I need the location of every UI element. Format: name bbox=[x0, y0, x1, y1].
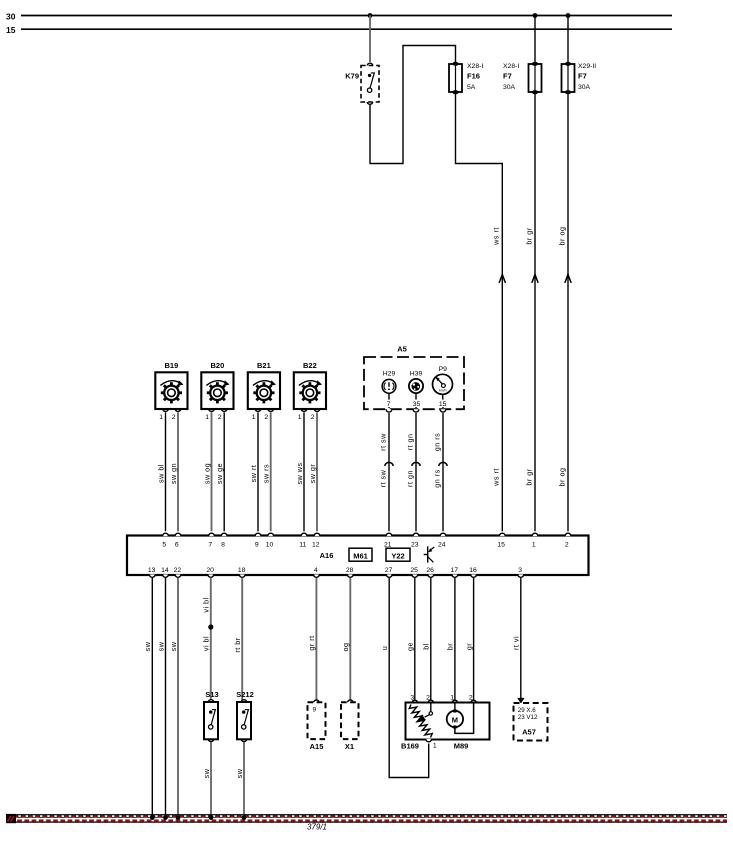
terminal A16 top pin 2 bbox=[565, 533, 571, 536]
svg-text:vi bl: vi bl bbox=[202, 636, 211, 651]
svg-text:F7: F7 bbox=[503, 72, 512, 81]
svg-text:23 V12: 23 V12 bbox=[518, 714, 538, 721]
svg-text:F7: F7 bbox=[578, 72, 587, 81]
svg-text:H39: H39 bbox=[410, 371, 423, 378]
ground dot S13 wire bbox=[209, 815, 214, 820]
svg-text:18: 18 bbox=[238, 567, 246, 574]
connector A57 bbox=[514, 698, 548, 741]
svg-text:br gr: br gr bbox=[524, 227, 533, 244]
wire A16 pin4 to A15, gr rt bbox=[315, 578, 317, 700]
svg-text:F16: F16 bbox=[467, 72, 480, 81]
svg-text:br og: br og bbox=[557, 468, 566, 487]
wire B20 pin1 to A16, sw og bbox=[211, 413, 213, 532]
wire B19 pin1 to A16, sw bl bbox=[165, 413, 167, 532]
svg-text:5: 5 bbox=[162, 541, 166, 548]
svg-text:X29-II: X29-II bbox=[578, 63, 596, 70]
terminal A16 bottom pin 25 bbox=[412, 574, 418, 577]
pin label A5 7 bbox=[385, 400, 392, 408]
svg-text:30A: 30A bbox=[578, 84, 591, 91]
wire net30 to K79 bbox=[369, 16, 371, 63]
wire S13 to ground, sw bbox=[210, 742, 212, 817]
wire A16 pin25 to B169 pin3, ge bbox=[414, 578, 416, 701]
svg-text:vi bl: vi bl bbox=[202, 597, 211, 612]
svg-text:br og: br og bbox=[557, 227, 566, 246]
switch S13 bbox=[204, 690, 219, 741]
svg-text:35: 35 bbox=[413, 401, 421, 408]
svg-text:15: 15 bbox=[439, 401, 447, 408]
pin label A5 35 bbox=[412, 400, 422, 408]
svg-text:sw ge: sw ge bbox=[215, 463, 224, 484]
svg-text:M89: M89 bbox=[454, 741, 469, 750]
terminal A16 top pin 5 bbox=[163, 533, 169, 536]
arrow on wire br og bbox=[565, 274, 571, 283]
instrument assembly A5 bbox=[364, 344, 464, 409]
connector arc on rt sw wire bbox=[385, 462, 394, 465]
svg-text:sw rs: sw rs bbox=[262, 464, 271, 483]
boxed label M61 bbox=[349, 548, 372, 561]
svg-text:M61: M61 bbox=[353, 552, 368, 561]
svg-text:7: 7 bbox=[208, 541, 212, 548]
speed sensor B22 bbox=[294, 361, 326, 421]
svg-text:A5: A5 bbox=[397, 344, 407, 353]
svg-text:S13: S13 bbox=[205, 690, 218, 699]
svg-text:23: 23 bbox=[411, 541, 419, 548]
svg-text:rt gn: rt gn bbox=[406, 434, 415, 451]
svg-text:30A: 30A bbox=[503, 84, 516, 91]
svg-text:Y22: Y22 bbox=[391, 552, 404, 561]
svg-text:2: 2 bbox=[469, 695, 473, 702]
terminal A16 top pin 8 bbox=[221, 533, 227, 536]
terminal A16 bottom pin 4 bbox=[314, 574, 320, 577]
svg-text:10: 10 bbox=[266, 541, 274, 548]
wire net30 to F7-II bbox=[567, 16, 569, 63]
wire net 15 bus line bbox=[21, 28, 672, 30]
svg-text:A15: A15 bbox=[310, 742, 324, 751]
wire A16 pin20 to S13, vi bl bbox=[210, 578, 212, 700]
svg-text:bl: bl bbox=[422, 643, 431, 650]
svg-text:sw: sw bbox=[235, 768, 244, 778]
wire B21 pin2 to A16, sw rs bbox=[270, 413, 272, 532]
wire H39 internal bbox=[415, 393, 417, 408]
terminal A16 bottom pin 16 bbox=[471, 574, 477, 577]
svg-text:B21: B21 bbox=[257, 361, 271, 370]
svg-text:20: 20 bbox=[206, 567, 214, 574]
wire B21 pin1 to A16, sw rt bbox=[257, 413, 259, 532]
pin label A5 15 bbox=[438, 400, 448, 408]
svg-text:6: 6 bbox=[175, 541, 179, 548]
wire S212 to ground, sw bbox=[243, 742, 245, 817]
boxed label Y22 bbox=[386, 548, 410, 561]
svg-text:24: 24 bbox=[438, 541, 446, 548]
terminal A16 top pin 10 bbox=[268, 533, 274, 536]
svg-text:rt sw: rt sw bbox=[379, 469, 388, 487]
arrow on wire br gr bbox=[532, 274, 538, 283]
svg-text:ws rt: ws rt bbox=[492, 227, 501, 246]
svg-text:A16: A16 bbox=[320, 551, 334, 560]
actuator unit B169 M89 box bbox=[406, 695, 490, 740]
wire A16 pin13 to ground, sw bbox=[151, 578, 153, 817]
speed sensor B20 bbox=[201, 361, 233, 421]
junction dot F7-II on net 30 bbox=[566, 13, 571, 18]
terminal A16 bottom pin 26 bbox=[428, 574, 434, 577]
svg-text:sw ws: sw ws bbox=[295, 462, 304, 484]
ECU A16 box bbox=[127, 536, 589, 576]
svg-text:1: 1 bbox=[298, 414, 302, 421]
wire A16 pin27 to B169 pin1 routed, u bbox=[389, 578, 429, 778]
svg-text:2: 2 bbox=[565, 541, 569, 548]
wire A16 pin3 to A57, rt vi bbox=[520, 578, 522, 700]
terminal A16 top pin 9 bbox=[255, 533, 261, 536]
svg-text:gr: gr bbox=[464, 643, 473, 650]
ground dot pin22 wire bbox=[176, 815, 181, 820]
terminal A16 bottom pin 3 bbox=[518, 574, 524, 577]
svg-text:sw: sw bbox=[202, 768, 211, 778]
ground dot S212 wire bbox=[242, 815, 247, 820]
svg-text:rt sw: rt sw bbox=[379, 433, 388, 451]
junction dot F7-I on net 30 bbox=[533, 13, 538, 18]
svg-text:sw: sw bbox=[143, 641, 152, 651]
svg-text:B20: B20 bbox=[211, 361, 225, 370]
ground rail left end block bbox=[6, 814, 16, 823]
wire A16 pin22 to ground, sw bbox=[177, 578, 179, 817]
svg-text:X28-I: X28-I bbox=[503, 63, 519, 70]
wire B22 pin2 to A16, sw gr bbox=[316, 413, 318, 532]
motor M89 bbox=[447, 703, 474, 734]
svg-text:1: 1 bbox=[159, 414, 163, 421]
ground dot pin13 wire bbox=[150, 815, 155, 820]
svg-text:A57: A57 bbox=[522, 728, 536, 737]
svg-text:9: 9 bbox=[255, 541, 259, 548]
svg-text:rt gn: rt gn bbox=[406, 470, 415, 487]
label fuse F7-I bbox=[503, 63, 519, 91]
svg-text:B22: B22 bbox=[303, 361, 317, 370]
svg-text:sw gr: sw gr bbox=[308, 464, 317, 484]
wire net30 to F7-I bbox=[534, 16, 536, 63]
wire A16 pin28 to X1, og bbox=[349, 578, 351, 700]
svg-text:2: 2 bbox=[264, 414, 268, 421]
svg-text:1: 1 bbox=[252, 414, 256, 421]
terminal A16 top pin 12 bbox=[314, 533, 320, 536]
svg-text:sw bl: sw bl bbox=[156, 464, 165, 483]
potentiometer B169 resistive track bbox=[409, 705, 432, 738]
fuse F7 X29-II 30A bbox=[562, 62, 575, 95]
junction dot K79 on net 30 bbox=[368, 13, 373, 18]
connector A15 bbox=[308, 700, 326, 751]
svg-text:sw: sw bbox=[156, 641, 165, 651]
label fuse F7-II bbox=[578, 63, 596, 91]
svg-text:21: 21 bbox=[384, 541, 392, 548]
ground rail 31 bbox=[16, 814, 727, 822]
svg-text:B169: B169 bbox=[401, 741, 419, 750]
wire P9 internal bbox=[442, 394, 444, 408]
terminal A16 bottom pin 14 bbox=[163, 574, 169, 577]
terminal B169 pin1 bottom bbox=[426, 739, 437, 750]
warning lamp H39 bbox=[409, 371, 423, 393]
svg-text:5A: 5A bbox=[467, 84, 476, 91]
terminal A16 top pin 24 bbox=[440, 533, 446, 536]
svg-text:sw og: sw og bbox=[202, 463, 211, 484]
svg-text:br: br bbox=[446, 643, 455, 650]
svg-text:12: 12 bbox=[312, 541, 320, 548]
wire K79 to fuse F16 routed bbox=[370, 46, 456, 164]
svg-text:3: 3 bbox=[518, 567, 522, 574]
terminal A16 top pin 11 bbox=[301, 533, 307, 536]
svg-text:u: u bbox=[380, 646, 389, 651]
svg-text:sw rt: sw rt bbox=[249, 465, 258, 483]
wire F7-II to A16 pin2, br og bbox=[567, 94, 569, 531]
svg-text:8: 8 bbox=[221, 541, 225, 548]
svg-text:og: og bbox=[341, 643, 350, 652]
wire B19 pin2 to A16, sw gn bbox=[177, 413, 179, 532]
svg-text:27: 27 bbox=[385, 567, 393, 574]
svg-text:X28-I: X28-I bbox=[467, 63, 483, 70]
wire A16 pin14 to ground, sw bbox=[165, 578, 167, 817]
svg-text:15: 15 bbox=[497, 541, 505, 548]
svg-text:15: 15 bbox=[6, 25, 16, 35]
splice dot on vi bl wire bbox=[208, 624, 213, 629]
ground dot pin14 wire bbox=[163, 815, 168, 820]
svg-text:km/h: km/h bbox=[439, 389, 446, 393]
svg-text:9: 9 bbox=[313, 706, 317, 713]
svg-text:sw: sw bbox=[169, 641, 178, 651]
wire A16 pin17 to M89 pin1, br bbox=[454, 578, 456, 701]
label fuse F16 bbox=[467, 63, 483, 91]
svg-text:B19: B19 bbox=[165, 361, 179, 370]
svg-text:7: 7 bbox=[387, 401, 391, 408]
svg-text:14: 14 bbox=[161, 567, 169, 574]
svg-text:X1: X1 bbox=[345, 742, 354, 751]
wire A16 pin18 to S212, rt br bbox=[241, 578, 243, 700]
svg-text:M: M bbox=[452, 716, 458, 725]
svg-text:29 X.6: 29 X.6 bbox=[518, 707, 536, 714]
connector arc on rt gn wire bbox=[412, 462, 421, 465]
svg-text:26: 26 bbox=[426, 567, 434, 574]
wire B22 pin1 to A16, sw ws bbox=[303, 413, 305, 532]
terminal A5 pin15 bbox=[440, 409, 446, 412]
svg-text:4: 4 bbox=[314, 567, 318, 574]
svg-text:ws rt: ws rt bbox=[492, 468, 501, 487]
terminal A5 pin7 bbox=[386, 409, 392, 412]
svg-text:30: 30 bbox=[6, 11, 16, 21]
wire A16 pin26 to B169 pin2, bl bbox=[430, 578, 432, 701]
svg-text:22: 22 bbox=[174, 567, 182, 574]
terminal A16 bottom pin 22 bbox=[175, 574, 181, 577]
terminal A16 top pin 21 bbox=[386, 533, 392, 536]
svg-text:gr rt: gr rt bbox=[307, 635, 316, 650]
terminal A16 top pin 1 bbox=[532, 533, 538, 536]
svg-text:gn rs: gn rs bbox=[433, 433, 442, 451]
svg-text:H29: H29 bbox=[383, 371, 396, 378]
terminal A16 top pin 7 bbox=[209, 533, 215, 536]
wire F7-I to A16 pin1, br gr bbox=[534, 94, 536, 531]
wire A5 pin35 to A16 pin23, rt gn bbox=[415, 413, 417, 531]
svg-text:2: 2 bbox=[311, 414, 315, 421]
svg-text:ge: ge bbox=[406, 642, 415, 651]
connector arc on gn rs wire bbox=[439, 462, 448, 465]
fuse F7 X28-I 30A bbox=[529, 62, 542, 95]
svg-text:11: 11 bbox=[299, 541, 306, 548]
svg-text:rt br: rt br bbox=[233, 637, 242, 652]
svg-text:3: 3 bbox=[410, 695, 414, 702]
speed sensor B21 bbox=[248, 361, 280, 421]
svg-text:1: 1 bbox=[450, 695, 454, 702]
relay K79 bbox=[345, 63, 379, 104]
svg-text:1: 1 bbox=[205, 414, 209, 421]
svg-text:2: 2 bbox=[426, 695, 430, 702]
svg-text:379/1: 379/1 bbox=[307, 823, 327, 832]
svg-text:1: 1 bbox=[433, 743, 437, 750]
terminal A16 bottom pin 28 bbox=[347, 574, 353, 577]
svg-text:P9: P9 bbox=[439, 366, 448, 373]
wire F16 to A16 pin15 routed, ws rt bbox=[456, 94, 503, 531]
terminal A16 bottom pin 27 bbox=[386, 574, 392, 577]
transistor symbol inside A16 bbox=[424, 546, 435, 562]
svg-text:13: 13 bbox=[148, 567, 156, 574]
svg-text:2: 2 bbox=[218, 414, 222, 421]
speed sensor B19 bbox=[155, 361, 187, 421]
svg-text:sw gn: sw gn bbox=[169, 463, 178, 484]
switch S212 bbox=[236, 690, 254, 741]
svg-text:28: 28 bbox=[346, 567, 354, 574]
svg-text:K79: K79 bbox=[345, 72, 359, 81]
wire A5 pin15 to A16 pin24, gn rs bbox=[442, 413, 444, 531]
terminal A16 bottom pin 13 bbox=[149, 574, 155, 577]
svg-text:25: 25 bbox=[410, 567, 418, 574]
arrow on wire ws rt bbox=[499, 274, 505, 283]
wire A16 pin16 to M89 pin2, gr bbox=[473, 578, 475, 701]
svg-text:rt vi: rt vi bbox=[512, 636, 521, 650]
terminal A16 top pin 6 bbox=[175, 533, 181, 536]
terminal A16 top pin 15 bbox=[499, 533, 505, 536]
wire H29 internal bbox=[388, 393, 390, 408]
speedometer P9 bbox=[433, 366, 453, 394]
terminal A16 bottom pin 18 bbox=[239, 574, 245, 577]
wire net 30 bus line bbox=[21, 15, 672, 17]
connector X1 bbox=[341, 700, 359, 751]
terminal A16 top pin 23 bbox=[413, 533, 419, 536]
wire B20 pin2 to A16, sw ge bbox=[223, 413, 225, 532]
svg-text:S212: S212 bbox=[236, 690, 254, 699]
warning lamp H29 bbox=[382, 371, 396, 393]
svg-text:gn rs: gn rs bbox=[433, 469, 442, 487]
svg-text:2: 2 bbox=[172, 414, 176, 421]
fuse F16 X28-I 5A bbox=[449, 62, 462, 95]
terminal A16 bottom pin 20 bbox=[208, 574, 214, 577]
potentiometer B169 wiper arm bbox=[418, 703, 433, 722]
svg-text:1: 1 bbox=[532, 541, 536, 548]
svg-text:br gr: br gr bbox=[524, 468, 533, 485]
terminal A5 pin35 bbox=[413, 409, 419, 412]
svg-text:16: 16 bbox=[469, 567, 477, 574]
svg-text:17: 17 bbox=[451, 567, 459, 574]
wire A5 pin7 to A16 pin21, rt sw bbox=[388, 413, 390, 531]
terminal A16 bottom pin 17 bbox=[452, 574, 458, 577]
